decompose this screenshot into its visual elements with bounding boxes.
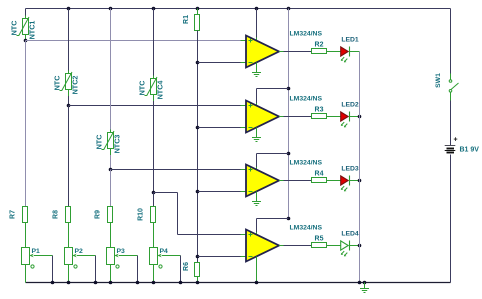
junction P2 bottom on rail (67, 281, 71, 285)
battery B1 (445, 145, 456, 147)
svg-text:P2: P2 (75, 248, 84, 255)
wire R3 to LED2 (327, 116, 341, 118)
svg-text:LM324/NS: LM324/NS (290, 160, 323, 167)
wire rail to NTC1 (25, 9, 27, 16)
wire op-amp 2 output (279, 116, 284, 118)
node 1 junction (24, 39, 28, 43)
wire right column to switch (450, 9, 452, 74)
svg-text:R4: R4 (315, 171, 324, 178)
wire R7 to P1 (25, 223, 27, 248)
wire reference to op-amp 3 - input (198, 191, 241, 193)
svg-text:NTC3: NTC3 (113, 135, 122, 154)
resistor R4 (312, 178, 327, 183)
wire node 3 to op-amp 3 + input (111, 169, 241, 171)
svg-text:R1: R1 (183, 15, 190, 24)
svg-text:P3: P3 (117, 248, 126, 255)
svg-text:NTC1: NTC1 (28, 21, 37, 40)
LED4 (341, 241, 349, 250)
potentiometer P2 (65, 248, 73, 265)
wire + input stub op-amp 3 (241, 169, 247, 171)
wire rail to NTC2 (68, 9, 70, 71)
wire V+ bus (288, 9, 290, 219)
svg-text:SW1: SW1 (435, 73, 442, 88)
ground op-amp 2 (252, 128, 261, 142)
wire P4 wiper to ground rail (162, 255, 181, 257)
junction P3 wiper on rail (136, 281, 140, 285)
wire NTC4 to node (153, 95, 155, 102)
svg-text:LED4: LED4 (341, 231, 359, 238)
junction R1 top on rail (196, 7, 200, 11)
potentiometer P3 (107, 248, 115, 265)
resistor R3 (312, 114, 327, 119)
svg-text:LM324/NS: LM324/NS (290, 96, 323, 103)
node 4 junction (152, 191, 156, 195)
thermistor NTC3 (108, 133, 114, 149)
wire R4 to LED3 (327, 180, 341, 182)
svg-text:LED3: LED3 (341, 166, 359, 173)
wire reference to op-amp 1 - input (198, 62, 241, 64)
svg-text:NTC: NTC (138, 81, 147, 96)
wire rail to op-amp 1 V+ (256, 9, 258, 38)
op-amp U2 LM324/NS (246, 101, 279, 133)
wire P1 wiper to ground rail (34, 255, 53, 257)
svg-text:+: + (453, 137, 457, 144)
svg-text:NTC2: NTC2 (71, 76, 80, 95)
thermistor NTC2 (66, 74, 72, 90)
junction reference to op-amp 3 - input (196, 190, 200, 194)
wire + input stub op-amp 4 (241, 234, 247, 236)
wire LED1 to cathode rail (350, 51, 360, 53)
svg-text:R8: R8 (53, 210, 60, 219)
wire R6 to ground rail (197, 277, 199, 283)
wire R10 to P4 (153, 223, 155, 248)
wire top power rail (26, 8, 451, 10)
svg-text:R6: R6 (183, 262, 190, 271)
ground op-amp 3 (252, 192, 261, 206)
svg-text:R5: R5 (315, 236, 324, 243)
wire R5 to LED4 (327, 245, 341, 247)
junction LED3 on cathode rail (358, 179, 362, 183)
svg-text:P1: P1 (32, 248, 41, 255)
junction top rail node 4 (152, 7, 156, 11)
junction P4 wiper on rail (179, 281, 183, 285)
junction LED2 on cathode rail (358, 115, 362, 119)
junction V+ bus row 2 (287, 87, 291, 91)
potentiometer P1 (22, 248, 30, 265)
LED3 (341, 176, 349, 185)
resistor R10 (151, 207, 156, 223)
junction V+ bus row 3 (287, 152, 291, 156)
wire LED cathode rail (359, 52, 361, 283)
wire rail to NTC4 (153, 9, 155, 76)
wire node 1 to op-amp 1 + input (26, 40, 241, 42)
resistor R9 (108, 207, 113, 223)
junction LED4 on cathode rail (358, 244, 362, 248)
wire battery to bottom rail (450, 155, 452, 283)
junction R6 on rail (196, 281, 200, 285)
svg-text:LM324/NS: LM324/NS (290, 31, 323, 38)
switch SW1 (449, 74, 458, 101)
wire node 4 down to R10 (153, 193, 155, 207)
thermistor NTC1 (23, 19, 29, 35)
wire R2 to LED1 (327, 51, 341, 53)
junction op-amp 1 V+ on rail (255, 7, 259, 11)
wire reference to op-amp 2 - input (198, 127, 241, 129)
wire P2 bottom to rail (68, 265, 70, 283)
wire + input stub op-amp 2 (241, 105, 247, 107)
ground op-amp 1 (252, 63, 261, 77)
junction reference to op-amp 4 - input (196, 255, 200, 259)
wire node 1 down to R7 (25, 41, 27, 207)
wire NTC2 to node (68, 90, 70, 97)
junction P2 wiper on rail (94, 281, 98, 285)
wire LED2 to cathode rail (350, 116, 360, 118)
svg-text:NTC: NTC (53, 76, 62, 91)
LED2 (341, 112, 349, 121)
node 2 junction (67, 104, 71, 108)
junction top rail node 2 (67, 7, 71, 11)
resistor R7 (23, 207, 28, 223)
node 3 junction (109, 168, 113, 172)
wire R8 to P2 (68, 223, 70, 248)
wire op-amp 4 output (279, 245, 284, 247)
wire P3 wiper to ground rail (119, 255, 138, 257)
svg-text:R2: R2 (315, 42, 324, 49)
wire R9 to P3 (110, 223, 112, 248)
junction reference to op-amp 2 - input (196, 126, 200, 130)
resistor R5 (312, 243, 327, 248)
wire + input stub op-amp 1 (241, 40, 247, 42)
svg-text:P4: P4 (160, 248, 169, 255)
wire node 3 down to R9 (110, 170, 112, 207)
wire op-amp 3 output (279, 180, 284, 182)
wire op-amp 1 output (279, 51, 284, 53)
wire switch to battery (450, 101, 452, 146)
resistor R8 (66, 207, 71, 223)
wire node 4 to op-amp 4 + input (154, 192, 178, 194)
wire P2 wiper to ground rail (77, 255, 96, 257)
op-amp U1 LM324/NS (246, 36, 279, 68)
junction reference to op-amp 1 - input (196, 61, 200, 65)
svg-text:NTC4: NTC4 (156, 81, 165, 100)
junction V+ bus row 4 (287, 217, 291, 221)
wire V+ bus to op-amp 3 (257, 153, 289, 155)
thermistor NTC4 (151, 79, 157, 95)
wire node 2 to op-amp 2 + input (69, 105, 241, 107)
svg-text:LED1: LED1 (341, 37, 359, 44)
wire V+ bus to op-amp 4 (257, 218, 289, 220)
wire bottom ground rail (26, 282, 451, 284)
wire reference column (197, 31, 199, 263)
svg-text:B1 9V: B1 9V (460, 147, 480, 154)
wire P4 bottom to rail (153, 265, 155, 283)
resistor R6 (195, 263, 200, 277)
LED1 (341, 47, 349, 56)
junction P1 wiper on rail (51, 281, 55, 285)
wire NTC3 to node (110, 149, 112, 156)
svg-text:LM324/NS: LM324/NS (290, 225, 323, 232)
wire V+ bus to op-amp 2 (257, 88, 289, 90)
wire P3 bottom to rail (110, 265, 112, 283)
wire reference to op-amp 4 - input (198, 256, 241, 258)
junction P4 bottom on rail (152, 281, 156, 285)
junction op-amp 4 V- on rail (255, 281, 259, 285)
wire rail to NTC3 (110, 9, 112, 130)
ground bottom (363, 281, 367, 285)
svg-text:LED2: LED2 (341, 102, 359, 109)
svg-text:R10: R10 (138, 208, 145, 221)
op-amp U3 LM324/NS (246, 165, 279, 197)
wire NTC1 to node (25, 35, 27, 42)
svg-text:R7: R7 (10, 210, 17, 219)
wire LED4 to cathode rail (350, 245, 360, 247)
resistor R2 (312, 49, 327, 54)
wire P1 bottom to rail (25, 265, 27, 283)
junction V+ bus on rail (287, 7, 291, 11)
wire op-amp 4 V- to ground rail (256, 257, 258, 283)
svg-text:NTC: NTC (95, 135, 104, 150)
wire LED3 to cathode rail (350, 180, 360, 182)
junction cathode rail on ground rail (358, 281, 362, 285)
junction P3 bottom on rail (109, 281, 113, 285)
wire node 2 down to R8 (68, 106, 70, 207)
potentiometer P4 (150, 248, 158, 265)
resistor R1 (197, 9, 199, 15)
svg-text:R3: R3 (315, 107, 324, 114)
svg-text:NTC: NTC (10, 21, 19, 36)
svg-text:R9: R9 (95, 210, 102, 219)
op-amp U4 LM324/NS (246, 230, 279, 262)
junction top rail node 3 (109, 7, 113, 11)
